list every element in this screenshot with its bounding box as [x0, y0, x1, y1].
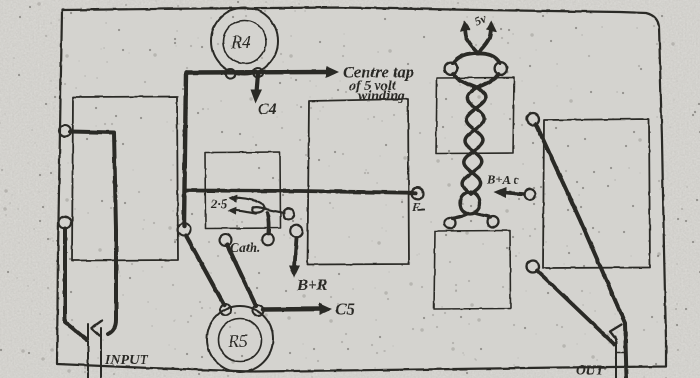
twisted pair top terminal left: [445, 62, 458, 75]
wire C5 horizontal: [263, 307, 322, 312]
svg-text:B+R: B+R: [296, 277, 328, 294]
arrowhead B+A: [494, 187, 507, 198]
twisted pair dome arch right: [477, 53, 500, 63]
valve socket box middle: [308, 99, 410, 265]
squiggle arrowhead lower: [228, 207, 237, 215]
twisted pair bottom loop: [460, 192, 480, 214]
terminal left lower: [59, 217, 71, 229]
input binding post left line: [87, 324, 89, 378]
arrowhead B+R: [289, 266, 300, 279]
terminal grid squiggle end: [283, 209, 294, 220]
svg-text:C4: C4: [258, 101, 277, 118]
terminal B+R: [290, 225, 303, 238]
terminal right upper: [527, 113, 539, 125]
terminal Cath: [220, 234, 232, 246]
resistor R4 body: [211, 8, 278, 75]
wire centre-tap horizontal: [186, 70, 330, 75]
out hook barb: [610, 325, 622, 340]
twisted pair flare right: [474, 213, 491, 217]
terminal mid left: [178, 223, 191, 236]
wire filament long horizontal: [186, 191, 416, 193]
horn arrowhead right: [486, 21, 497, 32]
socket box lower right: [434, 231, 511, 310]
out binding post left line: [615, 337, 617, 378]
resistor box 2-5: [205, 152, 281, 229]
svg-text:Cath.: Cath.: [230, 240, 260, 255]
rectifier socket box upper right: [436, 78, 514, 154]
twisted pair bottom terminal right: [488, 216, 499, 227]
label F underline: [418, 209, 426, 212]
R4 terminal right: [253, 68, 263, 78]
svg-text:C5: C5: [335, 300, 355, 319]
horn arm left: [465, 28, 478, 54]
svg-text:OUT: OUT: [576, 363, 604, 378]
input hook barb: [92, 321, 103, 336]
wire B+R drop: [295, 238, 297, 267]
wire diagonal right lower to out: [537, 271, 614, 345]
output transformer box right: [543, 119, 650, 268]
R5 terminal right: [253, 305, 264, 316]
terminal left upper: [59, 125, 71, 137]
twisted pair top terminal right: [495, 62, 508, 75]
svg-text:2·5: 2·5: [210, 196, 228, 211]
horn arrowhead left: [460, 21, 471, 32]
wire short from squiggle down: [268, 213, 269, 234]
wire left lower down to input: [65, 229, 87, 341]
svg-text:F: F: [411, 200, 420, 214]
out post tick: [616, 352, 625, 354]
arrow to centre tap label: [326, 66, 339, 78]
R5 terminal left: [220, 304, 231, 315]
svg-text:R5: R5: [227, 331, 248, 351]
wire from left terminal right and down: [70, 132, 116, 335]
arrowhead C4: [251, 90, 263, 104]
svg-text:B+A c: B+A c: [486, 173, 519, 187]
svg-text:INPUT: INPUT: [104, 353, 149, 368]
wire vertical from R4 down to terminal: [184, 73, 186, 227]
wire B+A arrow: [503, 193, 524, 195]
squiggle arrowhead upper: [229, 195, 238, 203]
arrowhead C5: [319, 303, 332, 315]
twisted pair lead-in right: [474, 74, 499, 89]
squiggle lower strand: [236, 210, 256, 213]
terminal below squiggle: [262, 234, 274, 246]
wire diagonal Cath to R5 right: [227, 245, 256, 307]
twisted pair lead-in left: [453, 74, 479, 89]
horn arm right: [478, 28, 491, 54]
svg-text:R4: R4: [230, 32, 251, 52]
twisted pair strand B: [463, 87, 485, 194]
wire diagonal to R5 left: [186, 236, 224, 306]
grid squiggle wire: [237, 198, 284, 213]
terminal right lower: [527, 261, 539, 273]
svg-text:winding.: winding.: [358, 89, 408, 104]
resistor R5 body: [207, 306, 273, 372]
input binding post right line: [100, 328, 102, 378]
twisted pair bottom terminal left: [445, 218, 456, 229]
transformer box left: [72, 97, 178, 261]
terminal B+A: [525, 189, 536, 200]
wire C4 drop: [257, 74, 259, 92]
twisted pair dome arch left: [453, 53, 479, 63]
wire long diagonal to out: [536, 124, 627, 378]
twisted pair strand A: [464, 87, 486, 194]
twisted pair flare left: [453, 214, 469, 219]
terminal F-: [412, 188, 424, 200]
R4 terminal left: [226, 69, 236, 79]
